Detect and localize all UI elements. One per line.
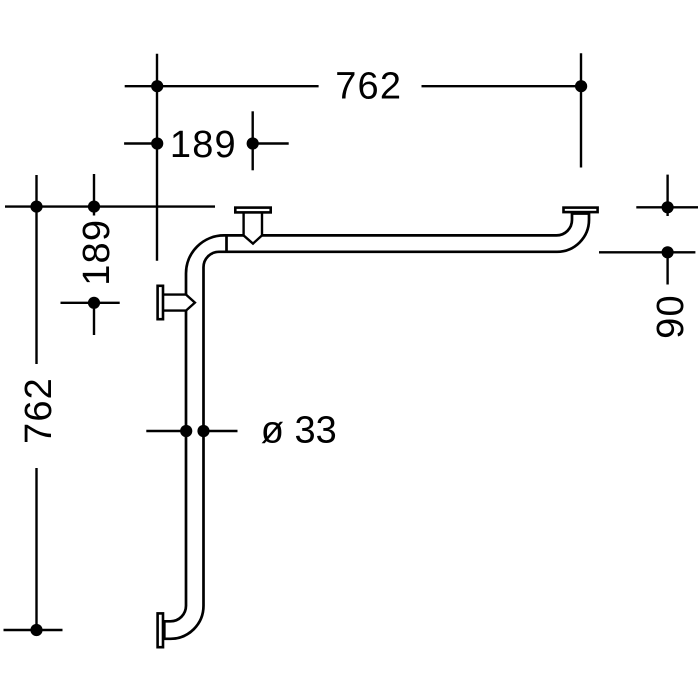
svg-text:762: 762 <box>335 66 402 108</box>
svg-text:ø 33: ø 33 <box>261 410 337 452</box>
svg-text:90: 90 <box>650 294 692 339</box>
svg-text:189: 189 <box>170 124 237 166</box>
svg-text:762: 762 <box>18 377 60 444</box>
svg-text:189: 189 <box>76 219 118 286</box>
